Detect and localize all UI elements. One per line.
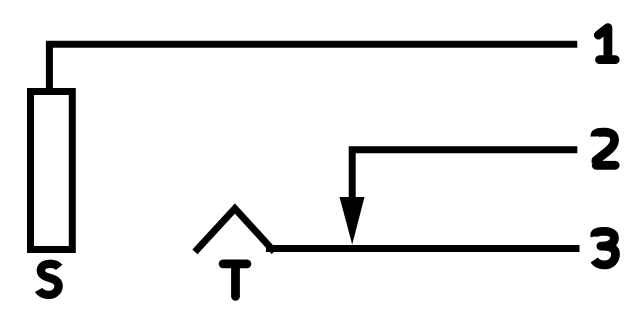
tip contact T chevron <box>195 209 274 252</box>
label 1 (pin number) <box>598 28 615 60</box>
sleeve contact S (rectangle) <box>31 92 73 250</box>
arrowhead (plunger arrow onto tip wire) <box>340 197 365 245</box>
wire terminal 1 (top rail from pin 1 to corner, drop to sleeve contact) <box>49 44 577 95</box>
label 2 (pin number) <box>595 132 615 165</box>
label S (sleeve) <box>39 264 59 295</box>
label 2 hook patch <box>593 133 602 137</box>
wire terminal 3 <box>266 245 580 252</box>
label 3 (pin number) <box>594 231 615 265</box>
wire terminal 2 (rail from pin 2 to corner, drop toward arrow) <box>352 150 577 205</box>
label T (tip) <box>223 264 247 297</box>
label 3 hook patch <box>592 232 599 237</box>
